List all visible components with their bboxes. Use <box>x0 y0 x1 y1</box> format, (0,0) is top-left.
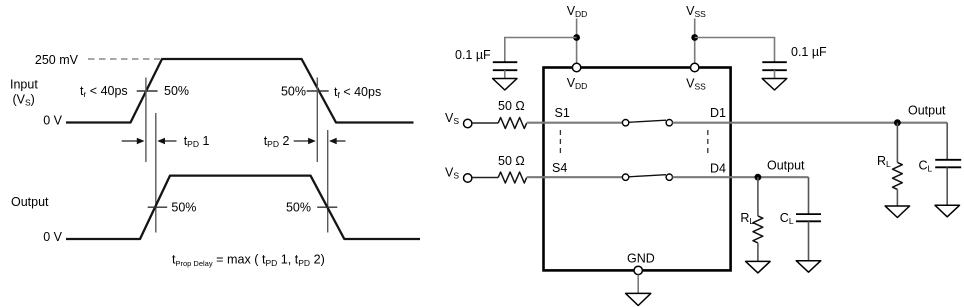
source terminal VS (row S4) <box>464 174 472 182</box>
junction dot output D1 <box>894 119 901 126</box>
tPD1 right dimension arrow <box>164 140 177 142</box>
ground (CL D4) <box>796 261 821 273</box>
wire CL to ground (D1) <box>946 167 948 205</box>
output waveform <box>66 176 420 239</box>
wire switch to D4 <box>673 176 731 178</box>
pin VSS <box>691 63 699 71</box>
ground (VSS bypass) <box>762 79 787 91</box>
wire switch to D1 <box>673 122 731 124</box>
svg-text:Output: Output <box>908 104 946 118</box>
wire RL to ground (D4) <box>757 243 759 262</box>
svg-text:D4: D4 <box>710 162 726 176</box>
wire D4 to output network <box>731 176 809 178</box>
svg-text:50 Ω: 50 Ω <box>498 99 525 113</box>
svg-text:0 V: 0 V <box>43 114 62 128</box>
capacitor 0.1uF (VSS bypass) <box>762 61 787 63</box>
svg-text:S4: S4 <box>552 161 567 175</box>
wire output node D1 down to CL <box>946 123 948 160</box>
svg-text:GND: GND <box>627 252 655 266</box>
input waveform <box>66 59 414 123</box>
svg-text:50%: 50% <box>171 201 196 215</box>
junction dot output D4 <box>755 174 762 181</box>
pin VDD <box>572 63 580 71</box>
ground (CL D1) <box>935 205 960 217</box>
tPD2 left dimension arrow <box>294 140 309 142</box>
wire VDD supply vertical <box>576 19 578 64</box>
tPD1 left dimension arrow <box>122 140 138 142</box>
resistor 50 Ω (row S1) <box>498 118 527 129</box>
IC U1 outline <box>544 68 731 271</box>
250 mV reference dashed line <box>88 58 160 60</box>
resistor RL (D4) <box>753 216 763 243</box>
wire resistor to IC pin S1 <box>527 122 544 124</box>
svg-text:50%: 50% <box>286 201 311 215</box>
wire VDD to bypass capacitor <box>505 38 577 63</box>
marker line at input rising 50% crossing <box>145 78 147 163</box>
svg-text:D1: D1 <box>710 106 726 120</box>
svg-text:Input: Input <box>10 78 38 92</box>
wire VS to resistor (row S1) <box>472 122 498 124</box>
wire output node D4 down to CL <box>808 177 810 214</box>
svg-text:tf < 40ps: tf < 40ps <box>334 85 381 100</box>
junction dot VDD <box>573 34 580 41</box>
marker line at output falling 50% crossing <box>327 130 329 233</box>
svg-text:tr < 40ps: tr < 40ps <box>80 84 128 99</box>
wire RL to ground (D1) <box>896 189 898 206</box>
marker line at output rising 50% crossing <box>155 113 157 233</box>
capacitor CL (D1) <box>935 159 961 161</box>
svg-text:0.1 µF: 0.1 µF <box>791 45 827 59</box>
wire output node D1 down to RL <box>896 123 898 163</box>
wire GND pin to ground <box>637 275 639 294</box>
capacitor CL (D4) <box>796 213 821 215</box>
dashed line D1 to D4 <box>707 130 709 157</box>
marker line at input falling 50% crossing <box>316 78 318 163</box>
svg-text:50 Ω: 50 Ω <box>498 154 525 168</box>
svg-text:50%: 50% <box>164 84 189 98</box>
ground (RL D1) <box>885 206 910 218</box>
svg-text:0 V: 0 V <box>43 230 62 244</box>
svg-text:(VS): (VS) <box>13 93 35 108</box>
wire VS to resistor (row S4) <box>472 177 498 179</box>
source terminal VS (row S1) <box>464 119 472 127</box>
wire VSS supply vertical <box>694 19 696 64</box>
ground (GND pin) <box>626 293 651 305</box>
tPD2 right dimension arrow <box>336 140 346 142</box>
pin GND <box>634 266 642 274</box>
wire resistor to IC pin S4 <box>527 176 544 178</box>
input falling 50% tick <box>307 90 329 92</box>
resistor RL (D1) <box>893 162 903 189</box>
wire VSS to bypass capacitor <box>695 38 775 63</box>
svg-text:Output: Output <box>11 195 49 209</box>
output rising 50% tick <box>148 206 168 208</box>
junction dot VSS <box>691 34 698 41</box>
switch SW1 (S1-D1) <box>622 120 628 126</box>
wire S4 to switch <box>544 176 623 178</box>
svg-text:0.1 µF: 0.1 µF <box>455 48 491 62</box>
wire capacitor to ground (left) <box>504 70 506 78</box>
svg-text:S1: S1 <box>555 106 570 120</box>
capacitor 0.1uF (VDD bypass) <box>493 61 518 63</box>
svg-text:250 mV: 250 mV <box>35 53 79 67</box>
wire capacitor to ground (right) <box>774 70 776 78</box>
svg-text:Output: Output <box>767 159 805 173</box>
switch SW4 (S4-D4) <box>622 174 628 180</box>
wire D1 to output network <box>731 122 948 124</box>
ground (RL D4) <box>746 261 771 273</box>
resistor 50 Ω (row S4) <box>498 172 527 183</box>
wire S1 to switch <box>544 122 623 124</box>
svg-text:50%: 50% <box>281 85 306 99</box>
dashed line S1 to S4 <box>559 130 561 157</box>
output falling 50% tick <box>317 206 337 208</box>
input rising 50% tick <box>137 90 158 92</box>
wire CL to ground (D4) <box>808 221 810 260</box>
wire output node D4 down to RL <box>757 177 759 216</box>
ground (VDD bypass) <box>493 79 517 91</box>
